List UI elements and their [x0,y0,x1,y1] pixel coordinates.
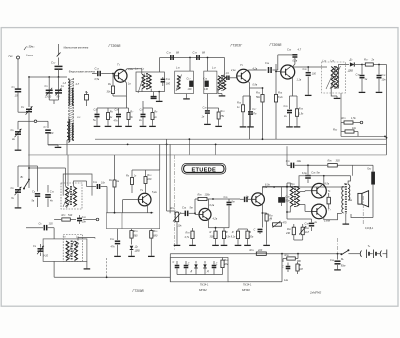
wire R22 line [341,136,387,138]
RF section bottom [28,154,386,156]
capacitor C27 [248,96,257,125]
crossing slugs osc1 [63,187,76,209]
wire AGC bus [95,138,387,140]
svg-text:20в: 20в [248,236,254,239]
switch B1 [21,175,31,190]
wire [189,139,215,155]
capacitor C33 [212,261,218,275]
svg-text:130: 130 [204,88,209,91]
svg-text:1,1в: 1,1в [297,79,302,82]
wire [125,96,127,108]
wire [218,90,225,96]
svg-text:Д9В: Д9В [347,70,353,73]
capacitor C38 [305,219,318,231]
capacitor C17 [187,78,194,92]
resistor R26v [246,229,254,243]
svg-text:R: R [299,264,301,267]
resistor R33 [283,254,301,263]
wire [348,176,350,185]
resistor R30v [221,258,229,275]
svg-text:10н: 10н [382,79,387,82]
svg-text:4,2в: 4,2в [213,218,218,221]
label PU24 b [243,283,252,286]
wire [54,261,87,277]
wire [106,258,108,277]
wire [158,91,160,99]
wire top bus [160,57,225,59]
ground [305,93,312,95]
resistor R34 [296,262,303,274]
wire [143,101,153,108]
svg-text:10п: 10п [101,182,106,185]
capacitor C24 [265,62,278,73]
capacitor C29 [284,96,293,125]
winding L6 osc [74,187,77,207]
wire emitter T2 [248,81,249,88]
diode D3 [190,261,198,275]
label GT309V bottom [133,289,145,293]
capacitor C31a [173,261,180,275]
svg-text:Д: Д [190,270,193,273]
Tr1 core [295,186,296,207]
wire [194,212,199,214]
svg-text:130: 130 [49,223,54,226]
capacitor C24a [181,206,195,217]
driver transformer Tr1 [291,182,295,186]
wire emitter T6 [261,204,263,213]
resistor R6 [107,108,114,124]
svg-text:Д: Д [206,270,209,273]
svg-text:R: R [210,231,212,234]
resistor R26 330 [328,159,374,168]
wire base T8 [299,205,311,212]
wire [262,110,264,139]
wire [243,95,251,97]
svg-text:470: 470 [283,222,288,225]
wire collector T7 [323,176,325,185]
crossing slugs [326,66,341,89]
wire [177,274,223,276]
core osc2 [71,241,72,260]
wire [238,226,248,229]
core 2 [221,75,224,91]
ground [376,90,383,92]
wire [150,89,152,92]
capacitor C18 [167,51,180,60]
wire [106,213,122,229]
wire [341,93,358,136]
svg-text:МП42: МП42 [199,288,207,292]
svg-text:100: 100 [312,73,317,76]
transistor T6 [245,186,268,206]
transistor T7 [312,183,331,199]
ground [94,124,101,126]
svg-text:ГТ309В: ГТ309В [109,44,122,48]
capacitor C19 [193,51,206,60]
svg-text:ГТ309В: ГТ309В [270,43,283,47]
svg-text:Магнитная антенна: Магнитная антенна [64,46,89,49]
wire [18,92,29,113]
svg-text:С31: С31 [382,74,386,77]
svg-text:ГТ309В: ГТ309В [133,289,145,293]
slug arrow [138,74,145,94]
capacitor C19b [203,78,209,92]
coil L2r [72,83,79,105]
svg-text:10м: 10м [297,160,302,163]
svg-text:13-20: 13-20 [45,95,52,98]
wire emitter T5 [207,219,209,227]
ferrite rod core [69,78,73,142]
variable capacitor C2 [21,105,32,115]
capacitor C12 [51,61,63,70]
battery B [358,244,387,258]
IF filter box A [175,71,194,94]
wire collector T8 [324,213,342,219]
resistor R5 [107,73,115,96]
svg-text:Д9В: Д9В [134,250,140,253]
slug A [176,75,182,92]
winding L10 [177,76,180,90]
svg-text:20: 20 [50,132,54,135]
core 3 [333,66,336,89]
ground [359,90,366,92]
ground [114,254,121,256]
svg-text:5,2в: 5,2в [152,191,157,194]
svg-text:0,5в: 0,5в [95,78,100,81]
capacitor base T2 [226,70,238,80]
ground [204,122,211,124]
wire [67,155,69,186]
wire [372,184,374,217]
wire [207,107,218,109]
capacitor C10 [45,185,55,207]
wire [106,187,108,213]
resistor R13 [130,229,139,241]
svg-text:240: 240 [285,232,291,235]
svg-text:С41: С41 [82,216,86,219]
svg-text:R: R [232,231,234,234]
wire [97,107,129,109]
svg-text:0,1ГД-1: 0,1ГД-1 [365,227,374,230]
label GT303G [231,44,244,48]
svg-text:2хМП42: 2хМП42 [309,291,322,295]
svg-text:ГТ303Г: ГТ303Г [231,44,244,48]
capacitor C13 [92,67,114,82]
capacitor C22 [110,229,120,254]
capacitor C16b [151,92,157,99]
capacitor C23 [87,181,108,189]
svg-text:9-20: 9-20 [43,255,49,258]
wire [74,181,87,186]
wire [66,140,68,155]
wire base T7 [299,190,311,193]
svg-text:0,2в: 0,2в [293,60,298,63]
resistor R19 [185,228,195,243]
T2 winding right [348,185,350,201]
wire gnd bus [177,242,267,244]
wire [228,254,289,282]
trimmer C8 [11,166,22,206]
wire collector T2 [248,69,266,72]
core osc1 [70,186,71,206]
winding L5 osc [66,187,69,207]
capacitor C6b [39,222,55,239]
tone network box [170,258,228,282]
wire [78,238,95,241]
ground [149,124,156,126]
wire [28,113,30,121]
ground [294,125,301,127]
capacitor C11 [286,159,327,168]
svg-text:47н: 47н [114,120,119,123]
resistor R8 [109,155,120,213]
svg-text:С: С [282,266,284,269]
svg-text:5м: 5м [190,207,193,210]
node terminal [360,121,363,124]
ground row [174,243,270,245]
coil L1 [63,80,70,106]
diode D1 [335,58,362,89]
svg-text:R: R [226,231,228,234]
svg-text:130: 130 [188,88,193,91]
svg-text:ПУ.24-1: ПУ.24-1 [243,283,252,286]
resistor R24 [222,228,230,243]
wire collector T3 [293,66,327,68]
wire mixer base [106,212,153,214]
ground [156,99,163,101]
svg-text:С: С [216,263,218,266]
svg-text:50м: 50м [341,265,346,268]
capacitor C37 [282,263,290,273]
svg-text:8,2к: 8,2к [278,96,283,99]
svg-text:300: 300 [210,236,215,239]
wire [278,55,293,70]
wire emitter T1 [113,81,131,97]
svg-text:1,5к: 1,5к [351,117,356,120]
label MP42 [199,288,207,292]
wire [17,59,19,89]
resistor R7 [127,108,134,124]
ground [148,254,155,256]
winding L14 [336,67,339,89]
osc box 2 coil box [63,235,82,262]
label MP40 [242,288,250,292]
svg-text:4,7: 4,7 [298,49,302,52]
wire base T4 [123,200,139,213]
wire [290,77,298,96]
label L12 [212,66,217,70]
wire [48,144,58,147]
resistor R13b [237,96,245,125]
capacitor C15 [114,108,122,124]
ground [105,124,112,126]
T2 core [345,184,346,215]
trimmer C5 [11,124,22,148]
wire [286,183,311,240]
svg-text:10н: 10н [82,221,87,224]
resistor R15b [150,229,159,254]
wire bus 2 [48,144,387,146]
label magnetic antenna [64,46,89,49]
svg-text:МП40: МП40 [242,288,250,292]
resistor R12 [256,88,264,110]
svg-text:6,3в: 6,3в [265,184,270,187]
svg-text:2,1в: 2,1в [230,70,236,72]
svg-text:С: С [254,229,256,232]
svg-text:ETUEDE: ETUEDE [192,168,217,174]
label ferrite antenna [69,71,96,74]
transistor T3 [281,60,302,82]
capacitor C17 [139,108,146,124]
ground [55,145,62,147]
label 2xMP42 [309,291,322,295]
capacitor C27e [254,212,264,234]
svg-text:680: 680 [153,235,158,238]
transistor T4 [138,188,157,206]
capacitor C7 [44,121,54,145]
wire [58,69,60,77]
svg-text:С: С [188,263,190,266]
capacitor C30d [356,65,368,91]
wire [169,254,171,282]
slug B [217,75,224,91]
osc coil 1 box [61,183,82,209]
resistor R20 [195,193,240,214]
ground [334,268,341,270]
wire collector T5 [207,199,209,210]
svg-text:560: 560 [134,235,139,238]
winding osc2b [75,241,78,261]
capacitor C16 [160,58,171,87]
node terminal [34,120,48,123]
emitter coupling [327,193,330,209]
winding L12a [218,76,221,90]
wire [146,187,148,213]
winding L4 [142,74,145,88]
label 30m [24,45,35,58]
wire [49,100,58,104]
ground [125,124,132,126]
svg-text:ПУ.24-1: ПУ.24-1 [200,283,209,286]
svg-text:100к: 100к [205,194,211,197]
label GT309V 2 [270,43,283,47]
winding L13 [331,67,334,89]
label L8 L9 [63,236,79,239]
ground [15,206,22,208]
wire collector T1 [125,69,142,74]
wire [286,146,288,165]
resistor R14 [274,91,283,140]
resistor R16 [295,96,304,125]
wire [18,155,66,188]
svg-text:5м: 5м [317,172,320,175]
wire collector bus [262,172,350,187]
svg-text:6,3в: 6,3в [302,172,307,175]
trimmer C4 [55,77,65,100]
capacitor C25 [224,196,235,228]
svg-text:5м: 5м [232,201,235,204]
wire [331,88,340,98]
winding osc2a [66,241,69,261]
wire [167,139,171,213]
resistor R17 [361,58,386,67]
svg-text:47н: 47н [252,113,257,116]
svg-text:«30м»: «30м» [27,45,35,49]
wire [351,214,373,218]
battery boundary [337,196,363,253]
mixer box [122,170,160,229]
resistor R8a [151,108,158,124]
wire [127,124,129,144]
wire [141,89,143,92]
wire [132,144,160,170]
svg-text:0,9в: 0,9в [253,84,258,87]
wire [250,87,264,139]
svg-text:R: R [270,218,272,221]
transistor T1 [114,63,133,83]
wire [224,58,226,77]
resistor R9 [126,170,137,193]
trimmer R32t [299,224,310,240]
svg-text:220: 220 [146,178,152,181]
coil L3 [67,115,81,140]
resistor R23 [210,228,218,243]
label L10 [176,66,181,70]
node Gn2 terminal [9,54,20,59]
winding L5 [148,74,151,88]
svg-text:Ферритовая антенна: Ферритовая антенна [69,71,96,74]
resistor R10 [144,170,152,187]
coupling Cb [85,90,89,106]
IF transformer 1 box [136,72,164,92]
wire [287,183,290,212]
winding L12b [223,76,226,90]
svg-text:510: 510 [68,214,73,217]
label PU24 a [200,283,209,286]
ground [215,124,222,126]
wire [167,210,176,212]
capacitor C9 [32,166,41,207]
label L13 L14 [323,59,336,62]
label L4 L5 [135,66,145,70]
resistor R21 [341,116,360,124]
svg-text:180: 180 [166,83,171,86]
wire [208,227,224,229]
ground [140,124,147,126]
ground [286,125,293,127]
logo ETUEDE [182,163,226,174]
resistor R10b [217,108,225,124]
diode D2 [130,241,140,254]
wire collector T6 [262,184,345,195]
wire osc line [26,227,43,229]
transistor T2 [237,63,258,87]
capacitor C31 [377,64,387,90]
ground [183,94,190,99]
capacitor C32 [184,261,190,275]
svg-text:47н: 47н [111,246,116,249]
wire bus [28,76,67,78]
coil L2 [68,119,74,142]
ground [240,125,247,127]
ground [343,214,350,224]
svg-text:50м: 50м [286,199,291,202]
transistor T5 [199,204,218,221]
wire base T6 [240,197,252,203]
capacitor C1 [12,85,22,98]
resistor R29 220 [250,248,267,255]
wire [47,143,49,146]
